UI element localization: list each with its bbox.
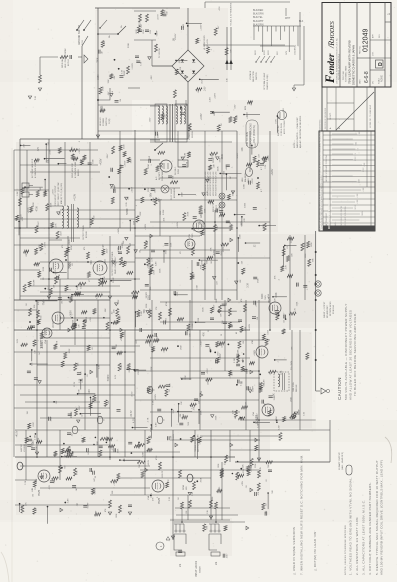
svg-text:△ USED IN SOME VERSIONS: △ USED IN SOME VERSIONS: [292, 527, 296, 575]
svg-text:220V: 220V: [268, 50, 270, 55]
svg-text:+95V: +95V: [219, 6, 221, 11]
svg-text:4.7K: 4.7K: [260, 381, 262, 386]
svg-text:1.6V: 1.6V: [17, 338, 19, 343]
svg-text:330K: 330K: [128, 42, 130, 48]
svg-text:68K: 68K: [237, 349, 239, 353]
svg-text:500PF: 500PF: [108, 374, 110, 381]
svg-text:AND ALLOW AT LEAST 20 SECONDS: AND ALLOW AT LEAST 20 SECONDS FOR VOLTAG…: [349, 310, 353, 400]
svg-text:4.7K: 4.7K: [201, 390, 203, 395]
svg-text:+410V: +410V: [148, 459, 150, 466]
svg-text:3.3K: 3.3K: [25, 480, 27, 485]
svg-text:-58V: -58V: [150, 117, 152, 122]
svg-text:1500: 1500: [149, 294, 151, 300]
svg-text:500PF: 500PF: [237, 152, 239, 159]
svg-text:10K: 10K: [281, 370, 283, 375]
svg-text:NONE: NONE: [381, 75, 384, 82]
svg-text:3.3K: 3.3K: [169, 496, 171, 501]
svg-text:+280V: +280V: [101, 105, 103, 112]
svg-text:47K: 47K: [37, 146, 40, 151]
svg-text:100K: 100K: [71, 412, 73, 418]
svg-text:APP.: APP.: [372, 34, 375, 38]
svg-text:+360V: +360V: [241, 220, 243, 226]
svg-text:CHASSIS D-13(B): CHASSIS D-13(B): [266, 74, 269, 90]
svg-text:100K: 100K: [150, 427, 152, 432]
svg-text:D: D: [378, 62, 384, 66]
svg-text:220K: 220K: [50, 149, 52, 155]
svg-text:470K: 470K: [37, 206, 39, 212]
svg-text:FULLERTON, CALIFORNIA U.S.A.: FULLERTON, CALIFORNIA U.S.A.: [338, 53, 341, 80]
svg-text:6-6-8: 6-6-8: [364, 71, 370, 83]
svg-text:3.3K: 3.3K: [226, 77, 228, 82]
svg-text:3.3K: 3.3K: [79, 378, 81, 383]
svg-text:330K: 330K: [296, 301, 298, 306]
svg-text:47K: 47K: [260, 466, 262, 470]
svg-text:+420V: +420V: [213, 249, 216, 256]
svg-text:SWITCH: SWITCH: [256, 72, 258, 80]
svg-text:250K: 250K: [222, 154, 224, 160]
svg-text:-58V: -58V: [235, 104, 237, 109]
svg-text:10 WATT OUTPUT: 10 WATT OUTPUT: [338, 452, 341, 470]
svg-text:#1: #1: [178, 563, 182, 567]
svg-text:4.7K: 4.7K: [295, 308, 297, 313]
svg-text:GZV: GZV: [286, 50, 288, 55]
svg-text:500 VOLTS AVAILABLE — DISCONNE: 500 VOLTS AVAILABLE — DISCONNECT POWER S…: [344, 303, 348, 400]
svg-text:B07916: B07916: [68, 58, 70, 66]
svg-text:220K: 220K: [69, 239, 71, 245]
svg-text:△ DOT(M) IN/ LEAD ‘ON’: △ DOT(M) IN/ LEAD ‘ON’: [313, 530, 317, 571]
svg-text:RCA 6534: RCA 6534: [332, 305, 335, 314]
svg-text:NOTES: UNLESS OTHERWISE SPECIF: NOTES: UNLESS OTHERWISE SPECIFIED: [345, 525, 347, 575]
svg-text:220K: 220K: [160, 268, 162, 273]
svg-text:100K: 100K: [244, 202, 246, 207]
svg-text:1.6V: 1.6V: [115, 374, 117, 379]
svg-text:RETURN JACKS: RETURN JACKS: [329, 301, 332, 316]
svg-text:REVERB UNIT: REVERB UNIT: [327, 304, 329, 318]
svg-text:BLK/GRN: BLK/GRN: [253, 13, 264, 16]
svg-text:OPTIONAL 3% AMP: OPTIONAL 3% AMP: [263, 72, 266, 90]
svg-text:220K: 220K: [209, 176, 211, 181]
svg-text:CAUTION: CAUTION: [337, 377, 342, 400]
svg-text:47K: 47K: [204, 332, 206, 337]
svg-text:+165V: +165V: [52, 189, 54, 196]
svg-text:2.2M: 2.2M: [153, 197, 155, 202]
svg-text:TO BLEED OFF BEFORE SERVICING: TO BLEED OFF BEFORE SERVICING AMPLIFIER.: [353, 313, 357, 396]
svg-text:7. WHEN INSTALLING NEW XLR'S: 7. WHEN INSTALLING NEW XLR'S RESET D.C. …: [300, 455, 304, 575]
svg-text:4.7K: 4.7K: [49, 484, 51, 489]
svg-text:VACUUM SCHEMATIC ORDERING: VACUUM SCHEMATIC ORDERING: [325, 154, 328, 182]
svg-text:SPEC: SPEC: [363, 167, 365, 172]
svg-text:3.3K: 3.3K: [248, 282, 250, 287]
svg-text:+410V: +410V: [74, 194, 77, 201]
svg-text:0.9V: 0.9V: [103, 244, 105, 249]
svg-text:330K: 330K: [218, 166, 220, 172]
svg-text:+360V: +360V: [220, 353, 222, 360]
svg-text:LINE / THERMOSTAT: LINE / THERMOSTAT: [64, 48, 67, 68]
svg-text:.047: .047: [80, 158, 83, 163]
svg-text:REV.: REV.: [379, 33, 381, 38]
svg-text:+410V: +410V: [17, 430, 19, 437]
svg-text:2.2M: 2.2M: [98, 75, 100, 80]
svg-text:1M: 1M: [33, 494, 35, 497]
svg-text:2.2M: 2.2M: [209, 97, 211, 102]
svg-text:+420V: +420V: [200, 24, 202, 31]
svg-text:240V: 240V: [255, 50, 257, 55]
svg-text:VOLTAGE: VOLTAGE: [249, 70, 252, 80]
svg-text:12K: 12K: [201, 214, 203, 219]
svg-text:5.2K: 5.2K: [35, 95, 37, 100]
svg-text:4.7K: 4.7K: [190, 151, 192, 156]
svg-text:+95V: +95V: [33, 440, 35, 446]
svg-text:100K: 100K: [118, 246, 120, 251]
svg-text:0.9V: 0.9V: [275, 119, 277, 124]
svg-text:+95V: +95V: [105, 259, 107, 265]
svg-text:4.7K: 4.7K: [192, 404, 194, 409]
svg-text:+360V: +360V: [201, 340, 203, 347]
svg-text:SHUNT + OUTPUT: SHUNT + OUTPUT: [324, 301, 326, 318]
svg-text:+165V: +165V: [201, 113, 203, 120]
svg-text:56K: 56K: [188, 421, 190, 425]
svg-text:0.9V: 0.9V: [224, 460, 226, 465]
svg-text:+95V: +95V: [90, 316, 92, 321]
svg-text:+95V: +95V: [242, 480, 244, 486]
svg-text:RECORD OF REVISIONS: RECORD OF REVISIONS: [325, 107, 327, 129]
svg-text:4. DOT DIGIT NUMBERS ARE FEND: 4. DOT DIGIT NUMBERS ARE FENDER PART NUM…: [368, 482, 372, 575]
svg-text:4.7K: 4.7K: [152, 257, 154, 262]
svg-text:22.5V: 22.5V: [52, 321, 55, 328]
svg-text:CORD & PLUG: CORD & PLUG: [281, 122, 283, 136]
svg-text:BLK: BLK: [299, 21, 304, 23]
svg-text:+420V: +420V: [271, 168, 274, 175]
svg-text:22.5V: 22.5V: [131, 391, 133, 397]
svg-text:+410V: +410V: [139, 20, 141, 27]
svg-text:56K: 56K: [108, 79, 110, 83]
svg-text:1M: 1M: [27, 411, 29, 414]
svg-text:2.2M: 2.2M: [196, 285, 198, 290]
svg-text:+420V: +420V: [99, 158, 102, 165]
svg-text:+420V: +420V: [247, 112, 249, 119]
svg-text:MODEL NO. 75 LEAD AMP: MODEL NO. 75 LEAD AMP: [369, 104, 372, 128]
svg-text:10K: 10K: [164, 217, 166, 221]
svg-text:330K: 330K: [97, 57, 99, 63]
svg-text:DO NOT SCALE DRAWING: DO NOT SCALE DRAWING: [328, 200, 331, 229]
svg-text:56K: 56K: [90, 260, 93, 265]
svg-text:56K: 56K: [144, 309, 146, 313]
svg-text:10K: 10K: [242, 147, 244, 152]
svg-text:2.2M: 2.2M: [148, 164, 150, 169]
svg-text:10/13/71: 10/13/71: [330, 113, 332, 120]
svg-text:+360V: +360V: [79, 147, 81, 153]
svg-text:22.5V: 22.5V: [157, 14, 159, 20]
svg-text:47K: 47K: [235, 415, 237, 419]
svg-text:BLK/RED: BLK/RED: [253, 9, 264, 12]
svg-text:3.3K: 3.3K: [274, 393, 276, 398]
svg-text:500PF: 500PF: [127, 207, 129, 214]
svg-text:SPKR JACK: SPKR JACK: [61, 56, 64, 68]
svg-text:230V: 230V: [264, 50, 266, 55]
svg-text:SPEC: SPEC: [355, 156, 357, 161]
svg-text:3.3K: 3.3K: [152, 400, 154, 405]
svg-text:AND 100 MV REVERB INPUT COIL D: AND 100 MV REVERB INPUT COIL DRIVE. (CON…: [380, 460, 384, 575]
svg-text:WHT: WHT: [285, 18, 291, 20]
svg-text:22.5V: 22.5V: [74, 381, 76, 387]
svg-text:SPEC: SPEC: [355, 204, 357, 209]
svg-text:CHANGED BULLETS MAY BE: CHANGED BULLETS MAY BE: [340, 205, 343, 229]
svg-text:330K: 330K: [261, 293, 264, 299]
svg-text:100K: 100K: [305, 253, 307, 258]
svg-text:100K: 100K: [276, 292, 278, 298]
svg-text:DATE: DATE: [359, 79, 362, 84]
svg-text:PART NO.: PART NO.: [359, 45, 362, 54]
svg-text:(MAX., LEAD OFF): (MAX., LEAD OFF): [341, 452, 344, 470]
svg-text:56K: 56K: [49, 158, 51, 162]
svg-text:1M: 1M: [130, 243, 132, 246]
svg-text:56K: 56K: [222, 320, 224, 324]
svg-text:ASSY CO20692: ASSY CO20692: [283, 120, 286, 134]
svg-text:.0047: .0047: [107, 153, 109, 159]
svg-text:DOMESTIC CHASSIS & JAPAN: DOMESTIC CHASSIS & JAPAN: [352, 45, 356, 85]
svg-text:BLK/WHT: BLK/WHT: [253, 20, 264, 23]
svg-text:C6028: C6028: [200, 566, 202, 573]
svg-text:+420V: +420V: [215, 92, 217, 99]
svg-text:2. ALL RESISTORS 1/2 WATT ±10: 2. ALL RESISTORS 1/2 WATT ±10%: [355, 517, 359, 575]
svg-text:#2: #2: [214, 561, 218, 565]
svg-text:DR.: DR.: [373, 80, 375, 84]
svg-text:BLK/YEL: BLK/YEL: [253, 16, 263, 19]
svg-text:-58V: -58V: [149, 192, 152, 197]
svg-text:+410V: +410V: [230, 372, 232, 379]
svg-text:Fender: Fender: [323, 53, 337, 84]
svg-text:+410V: +410V: [173, 433, 175, 440]
svg-text:47K: 47K: [211, 247, 213, 251]
svg-text:SELECTOR: SELECTOR: [253, 71, 255, 82]
svg-text:22.5V: 22.5V: [42, 299, 44, 305]
svg-text:1. VOLTAGES READ TO GROUND WI: 1. VOLTAGES READ TO GROUND WITH VTVM, NO…: [349, 477, 353, 575]
svg-text:68K: 68K: [199, 220, 201, 224]
svg-text:5. DENOTE TYPICAL MAX SIGNAL: 5. DENOTE TYPICAL MAX SIGNAL REQUIRED FO…: [375, 460, 379, 575]
svg-text:500PF: 500PF: [213, 156, 215, 163]
svg-text:GROUND SWITCH: GROUND SWITCH: [79, 25, 81, 45]
svg-text:+360V: +360V: [226, 164, 228, 171]
svg-text:CHK.: CHK.: [373, 51, 375, 56]
svg-text:3. ALL CAPACITORS AT LEAST 60: 3. ALL CAPACITORS AT LEAST 600V, M.I.S.C…: [362, 500, 366, 575]
svg-text:COLOR(S): COLOR(S): [295, 45, 297, 55]
svg-text:3.3K: 3.3K: [77, 470, 79, 475]
svg-text:10K: 10K: [89, 389, 91, 394]
svg-text:22.5V: 22.5V: [131, 410, 133, 417]
svg-text:68K: 68K: [57, 276, 59, 280]
svg-text:0.9V: 0.9V: [126, 201, 128, 206]
svg-text:100%: 100%: [362, 211, 364, 216]
svg-text:4.7K: 4.7K: [132, 418, 135, 423]
svg-text:+360V: +360V: [71, 310, 73, 317]
svg-text:1: 1: [387, 13, 391, 15]
svg-text:+360V: +360V: [28, 207, 30, 214]
svg-text:.047: .047: [95, 490, 97, 495]
svg-text:12K: 12K: [114, 309, 116, 313]
svg-text:250K: 250K: [291, 396, 293, 401]
svg-text:100K: 100K: [243, 183, 245, 188]
svg-text:47K: 47K: [26, 502, 28, 506]
svg-text:220K: 220K: [151, 366, 153, 372]
svg-text:+95V: +95V: [210, 200, 212, 206]
svg-text:TO ALL 6.3V HEATERS: TO ALL 6.3V HEATERS: [230, 2, 233, 26]
svg-text:1M: 1M: [173, 38, 175, 41]
svg-text:220K: 220K: [202, 307, 204, 312]
svg-text:+280V: +280V: [155, 393, 157, 400]
svg-text:+360V: +360V: [121, 334, 123, 341]
svg-text:012049: 012049: [363, 29, 370, 52]
svg-text:12K: 12K: [112, 490, 114, 494]
svg-text:4.7K: 4.7K: [147, 417, 149, 422]
svg-text:INPUT JACKS: INPUT JACKS: [195, 560, 198, 577]
svg-text:1.6V: 1.6V: [203, 86, 206, 91]
